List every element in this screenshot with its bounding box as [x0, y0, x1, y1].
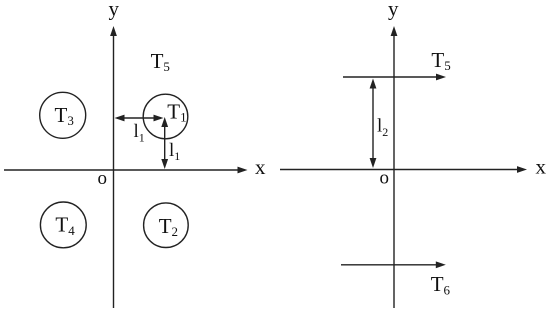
svg-text:l1: l1 [169, 140, 180, 163]
wire left y-axis [113, 34, 115, 308]
wire right y-axis [393, 34, 395, 308]
node T2 circle [144, 203, 189, 248]
svg-text:y: y [388, 0, 399, 21]
arrowhead l1 horizontal right tip [154, 115, 164, 122]
arrowhead right x-axis [517, 166, 527, 173]
wire left x-axis [4, 169, 240, 171]
svg-text:o: o [380, 168, 390, 189]
wire l1 horizontal measure [117, 117, 161, 119]
arrowhead left y-axis [110, 26, 117, 36]
wire l1 vertical measure [164, 120, 166, 166]
svg-text:y: y [109, 0, 120, 21]
arrowhead right y-axis [391, 26, 398, 36]
svg-text:T5: T5 [431, 48, 450, 73]
svg-text:T3: T3 [55, 103, 74, 128]
arrowhead l1 vertical bottom tip [161, 159, 168, 169]
node T1 circle [143, 94, 188, 139]
arrowhead l1 horizontal left tip [115, 115, 125, 122]
wire right x-axis [280, 169, 520, 171]
arrowhead left x-axis [238, 167, 248, 174]
svg-text:T4: T4 [55, 213, 75, 239]
svg-text:T6: T6 [431, 272, 451, 298]
svg-text:x: x [255, 155, 266, 179]
wire T5 current arrow right [343, 76, 439, 78]
svg-text:l2: l2 [377, 116, 388, 140]
wire l2 vertical measure [372, 82, 374, 165]
svg-text:T5: T5 [151, 49, 170, 74]
svg-text:l1: l1 [134, 121, 145, 144]
arrowhead l2 bottom tip [370, 158, 377, 168]
svg-text:x: x [536, 155, 547, 179]
arrowhead T6 right [436, 261, 446, 268]
node T3 circle [40, 92, 86, 138]
svg-text:o: o [98, 168, 108, 189]
wire T6 current arrow right [341, 264, 439, 266]
arrowhead l2 top tip [370, 79, 377, 89]
svg-text:T2: T2 [159, 214, 178, 239]
node T4 circle [40, 202, 86, 248]
arrowhead T5 right [436, 74, 446, 81]
arrowhead l1 vertical top tip [161, 117, 168, 127]
